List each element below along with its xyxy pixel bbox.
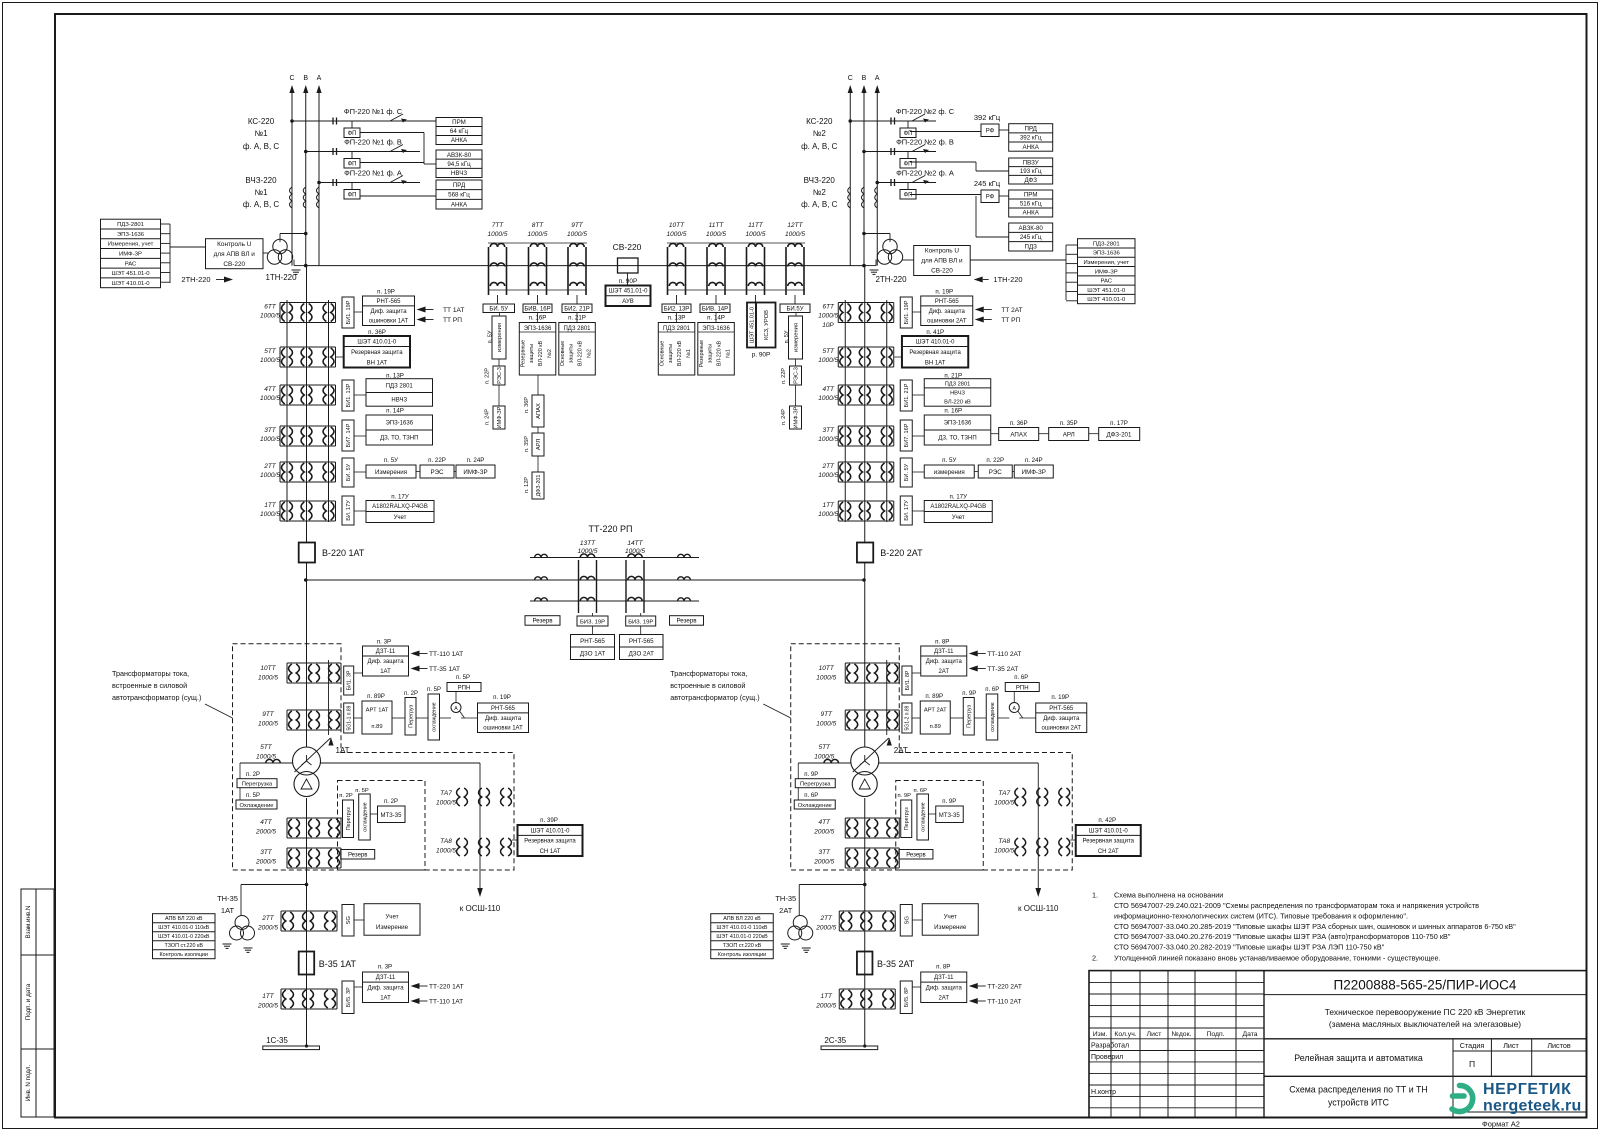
svg-text:АНКА: АНКА <box>1023 144 1040 151</box>
svg-text:п. 14Р: п. 14Р <box>386 408 404 415</box>
svg-text:Измерение: Измерение <box>934 924 967 931</box>
svg-text:п. 17Р: п. 17Р <box>1110 420 1128 427</box>
svg-text:РНТ-565: РНТ-565 <box>491 706 516 712</box>
svg-text:СВ-220: СВ-220 <box>931 268 953 275</box>
svg-text:к ОСШ-110: к ОСШ-110 <box>1018 904 1059 913</box>
svg-text:для АПВ ВЛ и: для АПВ ВЛ и <box>921 258 963 265</box>
svg-text:№2: №2 <box>586 349 592 358</box>
svg-text:ДЗО 2АТ: ДЗО 2АТ <box>629 650 654 657</box>
svg-text:ФП-220 №2 ф. С: ФП-220 №2 ф. С <box>896 107 955 116</box>
svg-text:2000/5: 2000/5 <box>257 1003 278 1010</box>
svg-text:245 кГц: 245 кГц <box>1020 234 1042 241</box>
svg-text:п. 42Р: п. 42Р <box>1098 817 1116 824</box>
svg-text:4ТТ: 4ТТ <box>818 819 831 826</box>
svg-text:БИ. 5У: БИ. 5У <box>346 463 352 481</box>
svg-text:БИ. 5У: БИ. 5У <box>904 463 910 481</box>
svg-text:ошиновки 2АТ: ошиновки 2АТ <box>927 319 967 325</box>
svg-text:ШЭТ 410.01-0 110кВ: ШЭТ 410.01-0 110кВ <box>717 925 768 931</box>
svg-text:№2: №2 <box>813 188 827 197</box>
svg-text:п.89: п.89 <box>371 724 382 730</box>
svg-text:п. 24Р: п. 24Р <box>781 409 787 425</box>
svg-text:1000/5: 1000/5 <box>578 548 598 555</box>
svg-text:1000/5: 1000/5 <box>667 231 687 238</box>
svg-text:БИ1. 3Р: БИ1. 3Р <box>347 670 353 690</box>
svg-text:НВЧЗ: НВЧЗ <box>391 397 407 403</box>
svg-text:1000/5: 1000/5 <box>488 231 508 238</box>
svg-text:СВ-220: СВ-220 <box>613 242 642 252</box>
svg-text:СТО 56947007-33.040.20.282-201: СТО 56947007-33.040.20.282-2019 "Типовые… <box>1114 943 1385 952</box>
svg-text:ФП-220 №2 ф. В: ФП-220 №2 ф. В <box>896 138 954 147</box>
svg-text:п. 22Р: п. 22Р <box>986 457 1004 464</box>
svg-text:охлаждение: охлаждение <box>990 702 996 731</box>
svg-text:ШЭТ 410.01-0: ШЭТ 410.01-0 <box>531 828 570 834</box>
svg-text:(замена масляных выключателей: (замена масляных выключателей на элегазо… <box>1329 1019 1521 1029</box>
svg-text:п. 6Р: п. 6Р <box>985 687 999 693</box>
svg-text:1ТТ: 1ТТ <box>822 502 835 509</box>
svg-text:ТА8: ТА8 <box>998 838 1010 845</box>
svg-text:АНКА: АНКА <box>451 137 468 144</box>
svg-text:ПРМ: ПРМ <box>452 119 466 126</box>
svg-text:Основные: Основные <box>560 341 566 367</box>
svg-text:1АТ: 1АТ <box>380 669 391 675</box>
svg-text:встроенные в силовой: встроенные в силовой <box>670 681 745 690</box>
svg-text:А1802RALXQ-P4GB: А1802RALXQ-P4GB <box>930 504 986 510</box>
svg-text:НВЧЗ: НВЧЗ <box>950 390 965 396</box>
svg-text:ЭПЗ-1636: ЭПЗ-1636 <box>117 232 145 238</box>
svg-text:п. 90Р: п. 90Р <box>619 278 638 285</box>
svg-text:1000/5: 1000/5 <box>258 675 278 682</box>
svg-text:БИ. 5У: БИ. 5У <box>489 307 508 313</box>
svg-text:охлаждение: охлаждение <box>362 802 368 831</box>
svg-text:3ТТ: 3ТТ <box>264 427 277 434</box>
svg-text:Измерения: Измерения <box>375 469 407 476</box>
svg-text:ПДЗ-2801: ПДЗ-2801 <box>117 222 144 228</box>
svg-text:Перегруз: Перегруз <box>967 704 973 727</box>
svg-text:СВ-220: СВ-220 <box>223 261 245 268</box>
svg-text:ТТ 1АТ: ТТ 1АТ <box>443 307 464 314</box>
svg-text:2АТ: 2АТ <box>779 906 793 915</box>
svg-text:п. 6Р: п. 6Р <box>914 788 928 794</box>
svg-text:ВЛ-220 кВ: ВЛ-220 кВ <box>944 400 971 406</box>
svg-text:БИЗ. 19Р: БИЗ. 19Р <box>628 620 653 626</box>
svg-text:ДФЗ-201: ДФЗ-201 <box>536 475 542 497</box>
svg-text:КС-220: КС-220 <box>248 117 275 126</box>
svg-text:АРЛ: АРЛ <box>1063 432 1075 439</box>
svg-text:2000/5: 2000/5 <box>255 859 276 866</box>
svg-text:Схема выполнена на основании: Схема выполнена на основании <box>1114 891 1223 900</box>
svg-text:Трансформаторы тока,: Трансформаторы тока, <box>670 669 747 678</box>
svg-text:БИ. 17У: БИ. 17У <box>346 500 352 521</box>
svg-text:Стадия: Стадия <box>1460 1041 1485 1050</box>
svg-text:п. 3Р: п. 3Р <box>377 639 391 646</box>
svg-text:п. 5У: п. 5У <box>488 330 494 343</box>
svg-text:БИЗ. 19Р: БИЗ. 19Р <box>580 620 605 626</box>
svg-text:ВЛ-220 кВ: ВЛ-220 кВ <box>716 340 722 366</box>
svg-text:Измерение: Измерение <box>376 924 409 931</box>
svg-text:СТО 56947007-29.240.021-2009 ": СТО 56947007-29.240.021-2009 "Схемы расп… <box>1114 901 1479 910</box>
svg-text:Проверил: Проверил <box>1091 1054 1123 1061</box>
svg-text:Диф. защита: Диф. защита <box>929 309 966 315</box>
svg-text:SG: SG <box>346 916 352 925</box>
svg-text:ТА8: ТА8 <box>440 838 452 845</box>
svg-text:РПН: РПН <box>1016 685 1029 691</box>
svg-text:2000/5: 2000/5 <box>815 925 836 932</box>
svg-text:ПРМ: ПРМ <box>1024 192 1038 199</box>
svg-text:АРЛ: АРЛ <box>536 439 542 450</box>
svg-text:РНТ-565: РНТ-565 <box>935 299 960 305</box>
svg-text:Учет: Учет <box>394 515 407 521</box>
svg-text:10ТТ: 10ТТ <box>669 222 685 229</box>
svg-text:10ТТ: 10ТТ <box>260 665 276 672</box>
svg-text:АПАХ: АПАХ <box>1010 432 1027 439</box>
svg-text:3ТТ: 3ТТ <box>822 427 835 434</box>
svg-text:РЭС: РЭС <box>989 469 1003 476</box>
svg-text:АНКА: АНКА <box>451 201 468 208</box>
svg-text:АПВ ВЛ 220 кВ: АПВ ВЛ 220 кВ <box>723 916 761 922</box>
svg-text:3ТТ: 3ТТ <box>260 849 273 856</box>
svg-text:п. 5Р: п. 5Р <box>355 788 369 794</box>
svg-text:АВЗК-80: АВЗК-80 <box>447 152 472 159</box>
svg-text:п. 9Р: п. 9Р <box>942 799 956 805</box>
svg-text:МТЗ-35: МТЗ-35 <box>939 813 961 819</box>
svg-text:Резервная защита: Резервная защита <box>1083 839 1135 845</box>
svg-text:ШЭТ 410.01-0: ШЭТ 410.01-0 <box>111 281 150 287</box>
svg-text:№2: №2 <box>813 129 827 138</box>
svg-text:П: П <box>1469 1059 1475 1069</box>
svg-text:4ТТ: 4ТТ <box>264 386 277 393</box>
svg-text:Перегруз: Перегруз <box>408 704 414 727</box>
svg-text:1000/5: 1000/5 <box>818 313 838 320</box>
svg-text:8ТТ: 8ТТ <box>532 222 545 229</box>
svg-text:2ТТ: 2ТТ <box>261 915 275 922</box>
svg-text:РАС: РАС <box>1100 279 1112 285</box>
svg-text:nergeteek.ru: nergeteek.ru <box>1483 1098 1581 1115</box>
svg-text:2000/5: 2000/5 <box>815 1003 836 1010</box>
svg-text:автотрансформатор (сущ.): автотрансформатор (сущ.) <box>112 693 201 702</box>
svg-text:ТТ-110 2АТ: ТТ-110 2АТ <box>987 999 1021 1006</box>
svg-text:1000/5: 1000/5 <box>746 231 766 238</box>
svg-text:Взам.инв.N: Взам.инв.N <box>25 906 32 939</box>
svg-text:п. 2Р: п. 2Р <box>404 691 418 697</box>
svg-text:ФП: ФП <box>348 193 357 199</box>
svg-text:ТТ 2АТ: ТТ 2АТ <box>1001 307 1022 314</box>
svg-text:п. 36Р: п. 36Р <box>368 329 386 336</box>
svg-text:п. 9Р: п. 9Р <box>804 772 818 778</box>
svg-text:ШЭТ 410.01-0: ШЭТ 410.01-0 <box>1089 828 1128 834</box>
svg-text:1000/5: 1000/5 <box>436 848 456 855</box>
svg-text:ДЗТ-11: ДЗТ-11 <box>376 649 396 655</box>
svg-text:РНТ-565: РНТ-565 <box>376 299 401 305</box>
svg-text:ТТ-35 2АТ: ТТ-35 2АТ <box>987 666 1018 673</box>
svg-text:ИМФ-ЗР: ИМФ-ЗР <box>1022 469 1046 476</box>
svg-text:12ТТ: 12ТТ <box>787 222 803 229</box>
svg-text:п. 22Р: п. 22Р <box>428 457 446 464</box>
svg-text:ЭПЗ-1636: ЭПЗ-1636 <box>944 421 972 427</box>
svg-text:ФП: ФП <box>348 131 357 137</box>
svg-text:1АТ: 1АТ <box>380 996 391 1002</box>
svg-text:БИ2. 13Р: БИ2. 13Р <box>664 307 690 313</box>
svg-text:БИ.5У: БИ.5У <box>786 307 803 313</box>
svg-text:В-220 1АТ: В-220 1АТ <box>322 548 365 558</box>
svg-text:Резерв: Резерв <box>906 853 926 859</box>
svg-text:1.: 1. <box>1092 891 1098 900</box>
svg-text:9ТТ: 9ТТ <box>820 711 833 718</box>
svg-text:ТН-35: ТН-35 <box>775 894 796 903</box>
svg-text:РЭС: РЭС <box>430 469 444 476</box>
svg-text:Кол.уч.: Кол.уч. <box>1114 1031 1136 1038</box>
svg-text:6ТТ: 6ТТ <box>264 304 277 311</box>
svg-text:SG: SG <box>904 916 910 925</box>
svg-text:1000/5: 1000/5 <box>567 231 587 238</box>
svg-text:ПДЗ 2801: ПДЗ 2801 <box>663 326 691 332</box>
svg-text:ПДЗ-2801: ПДЗ-2801 <box>1093 241 1120 247</box>
svg-text:встроенные в силовой: встроенные в силовой <box>112 681 187 690</box>
svg-text:устройств ИТС: устройств ИТС <box>1328 1098 1390 1108</box>
svg-text:ШЭТ 451.01-0: ШЭТ 451.01-0 <box>1087 288 1126 294</box>
svg-text:ВЛ-220 кВ: ВЛ-220 кВ <box>538 340 544 366</box>
svg-text:ф. А, В, С: ф. А, В, С <box>801 142 838 151</box>
svg-text:РЭС-3: РЭС-3 <box>793 367 799 384</box>
svg-text:п. 2Р: п. 2Р <box>339 793 353 799</box>
svg-text:2АТ: 2АТ <box>938 669 949 675</box>
svg-text:5G1-1 п.89: 5G1-1 п.89 <box>346 705 352 730</box>
svg-text:2ТН-220: 2ТН-220 <box>875 275 907 284</box>
svg-text:1ТТ: 1ТТ <box>262 993 275 1000</box>
svg-text:10ТТ: 10ТТ <box>819 665 835 672</box>
svg-text:измерения: измерения <box>934 469 965 476</box>
svg-text:9ТТ: 9ТТ <box>571 222 584 229</box>
svg-text:охлаждение: охлаждение <box>921 802 927 831</box>
svg-text:ШЭТ 410.01-0 110кВ: ШЭТ 410.01-0 110кВ <box>158 925 209 931</box>
svg-text:13ТТ: 13ТТ <box>580 540 596 547</box>
svg-text:СН 1АТ: СН 1АТ <box>540 849 561 855</box>
svg-text:Схема распределения по ТТ и ТН: Схема распределения по ТТ и ТН <box>1289 1085 1428 1095</box>
svg-text:для АПВ ВЛ и: для АПВ ВЛ и <box>214 251 256 258</box>
svg-text:п. 36Р: п. 36Р <box>1010 420 1028 427</box>
svg-text:ШЭТ 410.01-0 220кВ: ШЭТ 410.01-0 220кВ <box>716 934 768 940</box>
svg-text:БИ5. 3Р: БИ5. 3Р <box>346 987 352 1007</box>
svg-text:2ТТ: 2ТТ <box>263 463 277 470</box>
svg-text:2ТН-220: 2ТН-220 <box>181 275 210 284</box>
svg-text:10Р: 10Р <box>822 322 834 329</box>
svg-text:п. 3Р: п. 3Р <box>378 964 392 971</box>
svg-text:п. 5Р: п. 5Р <box>427 687 441 693</box>
svg-text:ДЗТ-11: ДЗТ-11 <box>376 975 396 981</box>
svg-text:п. 17У: п. 17У <box>391 494 409 501</box>
svg-text:Диф. защита: Диф. защита <box>370 309 407 315</box>
svg-text:п. 6Р: п. 6Р <box>1014 675 1028 681</box>
svg-text:ШЭТ 451.01-0: ШЭТ 451.01-0 <box>609 289 648 295</box>
svg-text:1000/5: 1000/5 <box>258 721 278 728</box>
svg-text:п. 5У: п. 5У <box>784 330 790 343</box>
svg-text:№док.: №док. <box>1172 1031 1192 1038</box>
svg-text:1000/5: 1000/5 <box>260 357 280 364</box>
svg-text:С: С <box>289 75 294 82</box>
svg-text:С: С <box>848 75 853 82</box>
svg-text:516 кГц: 516 кГц <box>1020 201 1042 208</box>
svg-text:п. 12Р: п. 12Р <box>524 477 530 493</box>
svg-text:1000/5: 1000/5 <box>260 395 280 402</box>
svg-text:1000/5: 1000/5 <box>256 754 276 761</box>
svg-text:Подп.: Подп. <box>1206 1031 1224 1038</box>
svg-text:п. 19Р: п. 19Р <box>377 289 395 296</box>
svg-text:1ТН-220: 1ТН-220 <box>265 273 297 282</box>
svg-text:Релейная защита и автоматика: Релейная защита и автоматика <box>1294 1053 1423 1063</box>
svg-text:Контроль изоляции: Контроль изоляции <box>718 952 766 958</box>
svg-text:ПДЗ 2801: ПДЗ 2801 <box>386 384 414 390</box>
svg-text:ФП: ФП <box>348 162 357 168</box>
svg-text:п. 5У: п. 5У <box>942 457 956 464</box>
svg-text:Контроль изоляции: Контроль изоляции <box>160 952 208 958</box>
svg-text:1000/5: 1000/5 <box>260 472 280 479</box>
svg-text:ТТ-220 2АТ: ТТ-220 2АТ <box>987 984 1022 991</box>
svg-text:ФП-220 №2 ф. А: ФП-220 №2 ф. А <box>896 169 954 178</box>
svg-text:РФ: РФ <box>986 129 995 135</box>
svg-text:ТТ РП: ТТ РП <box>443 317 462 324</box>
svg-text:ТТ РП: ТТ РП <box>1001 317 1020 324</box>
svg-text:ЭПЗ-1636: ЭПЗ-1636 <box>385 421 413 427</box>
svg-text:А: А <box>454 706 458 712</box>
svg-text:АНКА: АНКА <box>1023 210 1040 217</box>
svg-text:245 кГц: 245 кГц <box>974 179 1001 188</box>
svg-text:НЕРГЕТИК: НЕРГЕТИК <box>1483 1081 1571 1098</box>
svg-text:ДЗ, ТО, ТЗНП: ДЗ, ТО, ТЗНП <box>938 436 976 442</box>
svg-text:охлаждение: охлаждение <box>432 702 438 731</box>
svg-text:392 кГц: 392 кГц <box>1020 135 1042 142</box>
svg-text:ТТ-35 1АТ: ТТ-35 1АТ <box>429 666 460 673</box>
svg-text:Формат А2: Формат А2 <box>1482 1120 1520 1129</box>
svg-text:ДЗО 1АТ: ДЗО 1АТ <box>580 650 605 657</box>
svg-text:2ТТ: 2ТТ <box>821 463 835 470</box>
svg-text:5G1-2 п.89: 5G1-2 п.89 <box>905 705 911 730</box>
svg-text:ошиновки 1АТ: ошиновки 1АТ <box>483 726 523 732</box>
svg-text:п. 89Р: п. 89Р <box>367 693 385 700</box>
svg-text:БИ1. 13Р: БИ1. 13Р <box>346 383 352 407</box>
svg-text:5ТТ: 5ТТ <box>822 348 835 355</box>
svg-text:БИ1. 19Р: БИ1. 19Р <box>346 300 352 324</box>
svg-text:1С-35: 1С-35 <box>266 1036 288 1045</box>
svg-text:2АТ: 2АТ <box>894 746 908 755</box>
svg-text:ПДЗ: ПДЗ <box>1025 244 1038 251</box>
svg-text:№1: №1 <box>686 349 692 358</box>
svg-text:В: В <box>303 75 308 82</box>
svg-text:п. 89Р: п. 89Р <box>925 693 943 700</box>
svg-text:п. 22Р: п. 22Р <box>485 368 491 384</box>
svg-text:п. 39Р: п. 39Р <box>540 817 558 824</box>
svg-text:2АТ: 2АТ <box>938 996 949 1002</box>
svg-text:ДФЗ: ДФЗ <box>1024 177 1037 184</box>
svg-text:ДЗТ-11: ДЗТ-11 <box>934 975 954 981</box>
svg-text:1000/5: 1000/5 <box>785 231 805 238</box>
svg-text:Перегрузка: Перегрузка <box>242 782 273 788</box>
svg-text:ДЗТ-11: ДЗТ-11 <box>934 649 954 655</box>
svg-text:3ТТ: 3ТТ <box>818 849 831 856</box>
svg-text:Диф. защита: Диф. защита <box>926 985 963 991</box>
svg-text:ТТ-220 РП: ТТ-220 РП <box>589 524 633 534</box>
svg-text:193 кГц: 193 кГц <box>1020 168 1042 175</box>
svg-text:№2: №2 <box>547 349 553 358</box>
svg-text:Охлаждение: Охлаждение <box>239 803 273 809</box>
svg-text:1000/5: 1000/5 <box>528 231 548 238</box>
svg-text:Подп. и дата: Подп. и дата <box>25 983 32 1020</box>
svg-text:Перегруз: Перегруз <box>346 807 352 830</box>
svg-text:ф. А, В, С: ф. А, В, С <box>801 200 838 209</box>
svg-text:Резервная защита: Резервная защита <box>351 350 403 356</box>
svg-text:п. 2Р: п. 2Р <box>246 772 260 778</box>
svg-text:Диф. защита: Диф. защита <box>485 716 522 722</box>
svg-text:АВЗК-80: АВЗК-80 <box>1019 225 1044 232</box>
svg-text:ИМФ-ЗР: ИМФ-ЗР <box>1095 269 1118 275</box>
svg-text:ЭПЗ-1636: ЭПЗ-1636 <box>1093 251 1121 257</box>
svg-text:Техническое перевооружение ПС: Техническое перевооружение ПС 220 кВ Эне… <box>1325 1007 1526 1017</box>
svg-text:БИ1. 8Р: БИ1. 8Р <box>905 670 911 690</box>
svg-text:ТТ-110 2АТ: ТТ-110 2АТ <box>987 651 1021 658</box>
svg-text:6ТТ: 6ТТ <box>822 304 835 311</box>
svg-text:1000/5: 1000/5 <box>818 472 838 479</box>
svg-text:568 кГц: 568 кГц <box>448 192 470 199</box>
svg-text:Инв. N подл.: Инв. N подл. <box>25 1065 32 1102</box>
svg-text:ВЛ-220 кВ: ВЛ-220 кВ <box>577 340 583 366</box>
svg-text:п. 5У: п. 5У <box>384 457 398 464</box>
svg-text:Учет: Учет <box>952 515 965 521</box>
svg-text:№1: №1 <box>254 129 268 138</box>
svg-text:Резерв: Резерв <box>532 618 553 625</box>
svg-text:БИВ. 14Р: БИВ. 14Р <box>702 307 728 313</box>
svg-text:1000/5: 1000/5 <box>625 548 645 555</box>
svg-text:1000/5: 1000/5 <box>436 800 456 807</box>
svg-text:5ТТ: 5ТТ <box>260 744 273 751</box>
svg-text:ЭПЗ-1636: ЭПЗ-1636 <box>524 326 552 332</box>
svg-text:Диф. защита: Диф. защита <box>926 659 963 665</box>
svg-text:ВЧЗ-220: ВЧЗ-220 <box>804 176 836 185</box>
svg-text:защиты: защиты <box>708 344 714 363</box>
svg-text:ДЗ, ТО, ТЗНП: ДЗ, ТО, ТЗНП <box>380 436 418 442</box>
svg-text:СТО 56947007-33.040.20.285-201: СТО 56947007-33.040.20.285-2019 "Типовые… <box>1114 922 1516 931</box>
svg-text:БИ5. 8Р: БИ5. 8Р <box>904 987 910 1007</box>
svg-text:ТА7: ТА7 <box>440 790 452 797</box>
svg-text:ТЗОП ст.220 кВ: ТЗОП ст.220 кВ <box>164 943 203 949</box>
svg-text:Учет: Учет <box>944 914 957 921</box>
svg-text:автотрансформатор (сущ.): автотрансформатор (сущ.) <box>670 693 759 702</box>
svg-text:МТЗ-35: МТЗ-35 <box>381 813 403 819</box>
svg-text:Контроль U: Контроль U <box>217 241 252 248</box>
svg-text:ФП-220 №1 ф. А: ФП-220 №1 ф. А <box>344 169 402 178</box>
svg-text:АУВ: АУВ <box>622 299 634 305</box>
svg-text:АРТ 1АТ: АРТ 1АТ <box>366 707 389 713</box>
svg-text:ф. А, В, С: ф. А, В, С <box>243 142 280 151</box>
svg-text:Диф. защита: Диф. защита <box>367 659 404 665</box>
svg-text:п. 6Р: п. 6Р <box>804 793 818 799</box>
svg-text:№1: №1 <box>254 188 268 197</box>
svg-text:11ТТ: 11ТТ <box>748 222 764 229</box>
svg-text:БИ1. 19Р: БИ1. 19Р <box>904 300 910 324</box>
svg-text:защиты: защиты <box>529 344 535 363</box>
svg-text:1АТ: 1АТ <box>221 906 235 915</box>
svg-text:А: А <box>317 75 322 82</box>
svg-text:п. 9Р: п. 9Р <box>962 691 976 697</box>
svg-text:п. 19Р: п. 19Р <box>1051 694 1069 701</box>
svg-text:ПДЗ 2801: ПДЗ 2801 <box>563 326 591 332</box>
svg-text:п. 36Р: п. 36Р <box>524 397 530 413</box>
svg-text:1000/5: 1000/5 <box>816 721 836 728</box>
svg-text:ИМФ-ЗР: ИМФ-ЗР <box>119 252 142 258</box>
svg-text:РАС: РАС <box>125 261 137 267</box>
svg-text:Контроль U: Контроль U <box>925 248 960 255</box>
svg-text:ВН 1АТ: ВН 1АТ <box>925 360 946 366</box>
svg-text:Основные: Основные <box>659 341 665 367</box>
svg-text:измерения: измерения <box>794 323 800 352</box>
svg-text:№1: №1 <box>725 349 731 358</box>
